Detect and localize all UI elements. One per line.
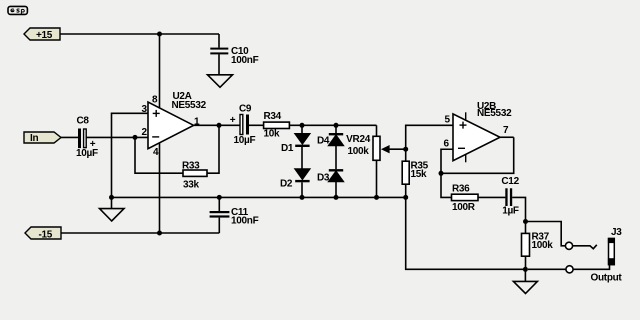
wire to jack tip contact — [526, 222, 566, 246]
junction D1 top — [300, 123, 305, 128]
U2B pin labels — [444, 115, 510, 150]
wire U2A pin 4 — [159, 143, 161, 234]
svg-text:R36: R36 — [452, 183, 470, 194]
wire U2A pin 2 to R33 — [135, 137, 183, 173]
capacitor C9 — [230, 104, 256, 146]
svg-text:In: In — [30, 133, 38, 144]
capacitor C11 — [210, 197, 259, 233]
capacitor C10 — [210, 34, 258, 75]
svg-text:+: + — [230, 115, 236, 126]
svg-text:10k: 10k — [264, 128, 281, 139]
wire U2B pin 6 — [441, 149, 453, 173]
power tag +15 — [24, 28, 60, 41]
wire diode rail — [289, 124, 376, 126]
svg-text:NE5532: NE5532 — [172, 100, 207, 111]
U2A pin labels — [142, 94, 201, 158]
junction input ground — [109, 195, 114, 200]
junction U2A pin 4 supply — [157, 231, 162, 236]
svg-text:+15: +15 — [36, 30, 53, 41]
potentiometer VR24 — [346, 125, 406, 197]
svg-text:5: 5 — [445, 115, 451, 126]
svg-text:7: 7 — [503, 125, 509, 136]
svg-text:15k: 15k — [411, 169, 428, 180]
junction R37 bottom — [523, 267, 528, 272]
junction R37 top — [523, 219, 528, 224]
wire U2B output — [500, 136, 514, 138]
junction VR24 bottom — [374, 195, 379, 200]
svg-text:2: 2 — [142, 127, 148, 138]
svg-text:-15: -15 — [39, 229, 53, 240]
capacitor C8 — [76, 116, 98, 160]
svg-text:D3: D3 — [317, 172, 330, 183]
svg-text:Output: Output — [591, 273, 623, 284]
ground C10 — [208, 75, 233, 88]
svg-text:100R: 100R — [452, 202, 476, 213]
diode D3 — [317, 169, 343, 197]
wire wiper node to R35 — [405, 149, 407, 161]
svg-text:VR24: VR24 — [346, 134, 371, 145]
wire -15 rail — [61, 232, 219, 234]
svg-text:6: 6 — [444, 139, 450, 150]
svg-text:C12: C12 — [501, 176, 519, 187]
ground output — [513, 269, 537, 293]
junction pot wiper node — [403, 147, 408, 152]
junction D3 bottom — [334, 195, 339, 200]
svg-text:100k: 100k — [532, 240, 554, 251]
svg-text:1µF: 1µF — [502, 206, 519, 217]
svg-text:100k: 100k — [347, 146, 369, 157]
wire U2B feedback loop — [441, 137, 514, 173]
svg-text:10µF: 10µF — [234, 135, 256, 146]
wire ground rail — [112, 196, 406, 198]
svg-text:C9: C9 — [239, 104, 252, 115]
junction D2 bottom — [300, 195, 305, 200]
resistor R34 — [264, 111, 290, 140]
wire In to C8 — [61, 136, 78, 138]
diode D1 — [281, 125, 310, 169]
op-amp U2B — [453, 101, 512, 162]
wire U2A pin 3 to ground — [112, 113, 149, 197]
power tag In — [24, 132, 61, 144]
terminal sleeve circle — [566, 266, 573, 273]
resistor R33 — [182, 160, 207, 190]
ESP logo — [8, 6, 27, 14]
wire U2A output — [194, 124, 240, 126]
wire C9 to R34 — [249, 124, 264, 126]
resistor R35 — [402, 161, 428, 198]
svg-text:100nF: 100nF — [231, 216, 259, 227]
junction U2A pin 2 node — [133, 135, 138, 140]
terminal tip circle — [565, 242, 572, 249]
svg-text:100nF: 100nF — [231, 55, 259, 66]
wire feedback node to R36 — [441, 173, 452, 197]
wire sleeve rail — [528, 268, 566, 270]
svg-text:4: 4 — [153, 147, 159, 158]
junction U2A output — [217, 123, 222, 128]
junction C11 ground rail — [217, 195, 222, 200]
svg-text:C8: C8 — [77, 116, 90, 127]
junction R35 bottom — [403, 195, 408, 200]
wire R36 to C12 — [478, 196, 505, 198]
capacitor C12 — [501, 176, 519, 217]
wire sleeve to jack — [573, 264, 609, 269]
wire wiper node to U2B pin 5 — [406, 125, 453, 149]
junction U2A pin 8 supply — [157, 32, 162, 37]
junction D4 top — [334, 123, 339, 128]
diode D4 — [317, 125, 343, 169]
power tag -15 — [25, 227, 61, 240]
jack switch contact — [573, 245, 597, 249]
ground input — [100, 197, 125, 221]
svg-text:J3: J3 — [611, 227, 622, 238]
svg-text:R34: R34 — [264, 111, 282, 122]
wire R33 to U2A output — [207, 125, 219, 173]
wire +15 rail — [60, 33, 219, 35]
svg-text:D1: D1 — [281, 143, 294, 154]
svg-text:R33: R33 — [182, 160, 200, 171]
svg-text:D4: D4 — [317, 136, 330, 147]
wire ground rail to output rail — [406, 197, 526, 269]
wire U2A pin 8 — [159, 34, 161, 108]
diode D2 — [280, 169, 310, 197]
resistor R37 — [522, 222, 554, 270]
jack J3 — [608, 227, 622, 265]
svg-text:10µF: 10µF — [76, 148, 98, 159]
wire C8 to U2A pin 2 — [87, 136, 148, 138]
op-amp U2A — [148, 91, 207, 149]
resistor R36 — [452, 183, 479, 213]
svg-text:NE5532: NE5532 — [477, 108, 512, 119]
svg-text:8: 8 — [152, 94, 158, 105]
svg-text:33k: 33k — [183, 179, 200, 190]
wire C12 to R37 node — [512, 197, 525, 221]
svg-text:D2: D2 — [280, 179, 293, 190]
junction U2B feedback — [439, 171, 444, 176]
